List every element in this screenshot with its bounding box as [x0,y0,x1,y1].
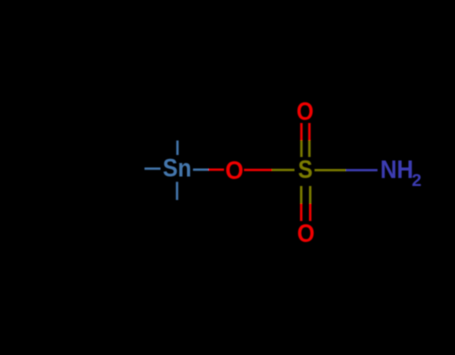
bond Sn-O (Sn half) [193,169,209,171]
svg-text:2: 2 [412,170,422,190]
methyl bond left of Sn [145,168,161,170]
svg-text:O: O [297,220,315,248]
svg-text:O: O [297,98,314,126]
methyl bond above Sn [176,141,178,156]
svg-text:N: N [380,156,397,184]
methyl bond below Sn [176,182,178,200]
bond S-N (N half) [346,169,378,171]
double bond S=O top (left line, O half) [300,123,302,141]
svg-text:Sn: Sn [163,154,192,182]
double bond S=O top (right line, S half) [308,141,310,158]
double bond S=O bottom (left line, S half) [300,186,302,204]
double bond S=O bottom (left line, O half) [300,204,302,222]
svg-text:S: S [298,156,313,184]
bond O-S (S half) [272,169,295,171]
svg-text:O: O [225,157,243,185]
double bond S=O top (right line, O half) [308,123,310,141]
double bond S=O bottom (right line, S half) [309,186,311,204]
bond Sn-O (O half) [209,169,225,171]
double bond S=O bottom (right line, O half) [309,204,311,222]
bond S-N (S half) [315,169,347,171]
double bond S=O top (left line, S half) [300,141,302,158]
bond O-S (O half) [244,169,272,171]
